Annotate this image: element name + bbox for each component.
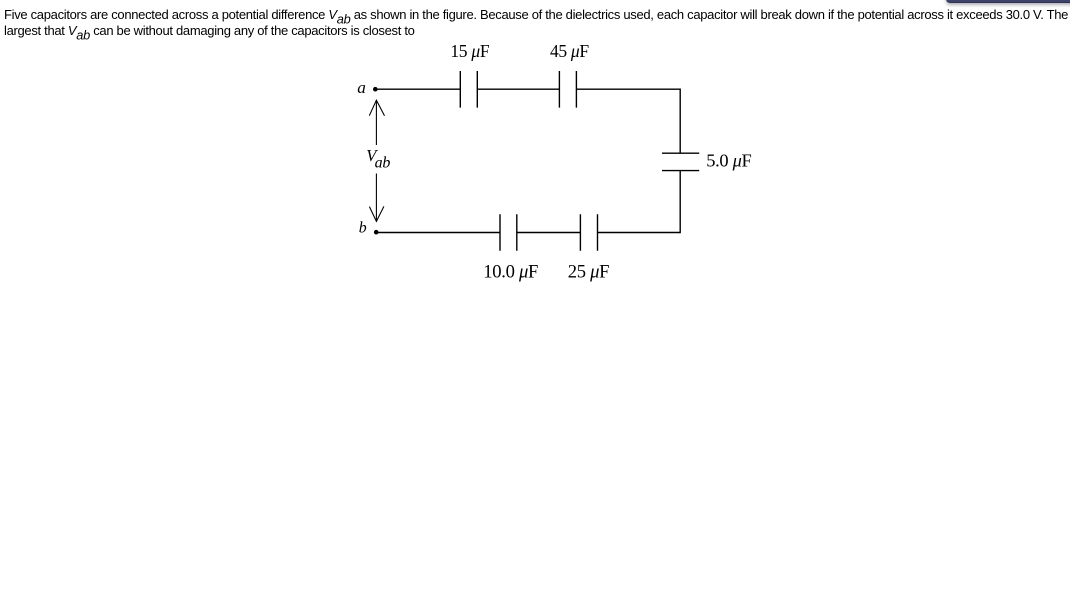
svg-text:25 μF: 25 μF <box>568 262 609 283</box>
node b label <box>359 220 367 237</box>
wire: bottom middle segment (C25 to C10) <box>517 232 581 234</box>
capacitor C15 (15 uF) plates <box>460 71 477 108</box>
Vab arrow lower head (points down toward b) <box>369 206 384 221</box>
capacitor C25 value label 25 uF <box>568 262 609 283</box>
Vab arrow lower shaft <box>375 174 377 222</box>
Vab arrow upper head (points up toward a) <box>369 100 384 116</box>
Vab source label <box>366 146 390 171</box>
wire: right side lower segment (C5 down to bottom-right corner) <box>679 171 681 234</box>
Vab arrow upper shaft <box>375 100 377 145</box>
svg-text:10.0 μF: 10.0 μF <box>483 262 538 283</box>
tooltip remnant bar (top right) <box>946 0 1070 3</box>
node b dot <box>374 230 379 235</box>
capacitor C5 (5.0 uF) plates <box>662 153 699 170</box>
wire: top middle segment (C15 to C45) <box>477 88 559 90</box>
node a dot <box>373 87 378 92</box>
svg-text:15 μF: 15 μF <box>450 41 489 61</box>
svg-text:a: a <box>357 78 365 97</box>
wire: right side upper segment (corner down to C5) <box>679 89 681 154</box>
wire: top right segment (C45 to top-right corner) <box>576 88 680 90</box>
svg-text:5.0 μF: 5.0 μF <box>706 151 751 171</box>
capacitor C15 value label 15 uF <box>450 41 489 61</box>
capacitor C10 value label 10.0 uF <box>483 262 538 283</box>
wire: bottom right segment (corner to C25) <box>598 232 681 234</box>
problem statement text <box>4 7 1069 39</box>
svg-text:b: b <box>359 220 367 237</box>
wire: top left segment (a to C15) <box>375 88 460 90</box>
capacitor C45 (45 uF) plates <box>559 71 576 108</box>
node a label <box>357 78 365 97</box>
capacitor C25 (25 uF) plates <box>580 214 597 251</box>
capacitor C10 (10.0 uF) plates <box>500 214 517 251</box>
svg-text:Vab: Vab <box>366 146 390 171</box>
wire: bottom left segment (C10 to b) <box>375 232 500 234</box>
capacitor C45 value label 45 uF <box>550 41 589 61</box>
capacitor C5 value label 5.0 uF <box>706 151 751 171</box>
svg-text:45 μF: 45 μF <box>550 41 589 61</box>
